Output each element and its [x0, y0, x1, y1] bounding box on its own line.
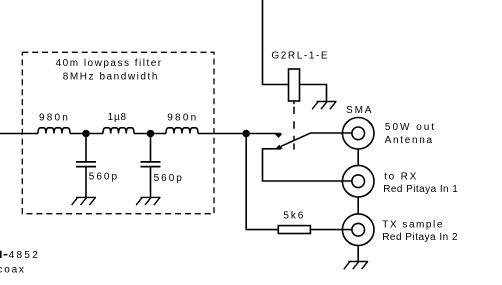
relay switch blade to antenna: [281, 133, 352, 146]
value label 980n: [39, 113, 70, 124]
SMA connector 3 (TX sample): [342, 214, 374, 246]
label 50W out: [385, 122, 436, 133]
SMA connector 1 (50W out Antenna): [342, 118, 374, 150]
node junction dot 1: [82, 130, 90, 138]
label to RX: [384, 171, 418, 182]
value label 560p: [154, 173, 184, 184]
ground (second capacitor): [136, 197, 160, 205]
label G2RL-1-E: [271, 50, 329, 61]
svg-text:Antenna: Antenna: [385, 135, 434, 146]
label SMA: [346, 105, 373, 116]
wire SMA3 shell to ground: [357, 246, 359, 262]
label Red Pitaya In 1: [383, 184, 458, 195]
filter enclosure box (dashed): [22, 52, 214, 213]
resistor 5k6: [278, 226, 310, 234]
svg-text:Red Pitaya In 2: Red Pitaya In 2: [382, 232, 458, 243]
node junction dot 2: [147, 130, 155, 138]
svg-text:8MHz bandwidth: 8MHz bandwidth: [63, 72, 159, 83]
wire between L1 and L2: [70, 133, 103, 135]
inductor 1µ8 (middle): [103, 128, 134, 134]
wire between L2 and L3: [134, 133, 166, 135]
value label 980n: [167, 113, 198, 124]
value label 1µ8: [108, 112, 127, 123]
label: 40m lowpass filter: [56, 58, 163, 69]
wire from L3 to relay contact: [198, 133, 281, 135]
value label 5k6: [283, 211, 305, 222]
svg-text:980n: 980n: [167, 113, 198, 124]
svg-text:SMA: SMA: [346, 105, 373, 116]
wire node to resistor: [246, 134, 278, 230]
svg-text:5k6: 5k6: [283, 211, 305, 222]
svg-text:40m lowpass filter: 40m lowpass filter: [56, 58, 163, 69]
svg-text:560p: 560p: [89, 172, 119, 183]
label Red Pitaya In 2: [382, 232, 458, 243]
capacitor 560p (first): [76, 134, 96, 198]
relay actuator dashed link: [293, 101, 295, 150]
SMA connector 2 (to RX): [342, 165, 374, 197]
inductor 980n (first): [38, 128, 70, 134]
svg-text:coax: coax: [0, 264, 26, 275]
wire input from left: [0, 133, 38, 135]
wire coil to ground: [300, 85, 327, 102]
relay contact 1 (from filter): [275, 134, 283, 138]
label Antenna: [385, 135, 434, 146]
node junction dot 3 (filter output node): [242, 130, 250, 138]
capacitor 560p (second): [141, 134, 161, 198]
svg-text:-4852: -4852: [3, 250, 40, 261]
wire SMA1 shell to SMA2 shell: [357, 149, 359, 165]
relay contact 2 (to RX): [275, 145, 283, 149]
svg-text:Red Pitaya In 1: Red Pitaya In 1: [383, 184, 458, 195]
label: 8MHz bandwidth: [63, 72, 159, 83]
ground (SMA shells): [344, 262, 368, 270]
svg-text:1µ8: 1µ8: [108, 112, 127, 123]
svg-text:TX sample: TX sample: [382, 219, 444, 230]
ground (relay coil): [312, 102, 336, 110]
relay coil G2RL-1-E: [289, 69, 300, 101]
svg-text:50W out: 50W out: [385, 122, 436, 133]
ground (first capacitor): [72, 197, 96, 205]
wire resistor to SMA3: [310, 229, 352, 231]
wire contact2 to SMA2: [263, 149, 353, 181]
svg-text:G2RL-1-E: G2RL-1-E: [271, 50, 329, 61]
wire relay coil supply (from top edge): [263, 0, 289, 85]
wire SMA2 shell to SMA3 shell: [357, 197, 359, 213]
inductor 980n (third): [166, 128, 198, 134]
caption fragment coax (cut off at left edge): [0, 264, 26, 275]
svg-text:980n: 980n: [39, 113, 70, 124]
label TX sample: [382, 219, 444, 230]
caption fragment -4852 (cut off at left edge): [0, 250, 40, 261]
svg-text:to RX: to RX: [384, 171, 418, 182]
svg-text:560p: 560p: [154, 173, 184, 184]
value label 560p: [89, 172, 119, 183]
